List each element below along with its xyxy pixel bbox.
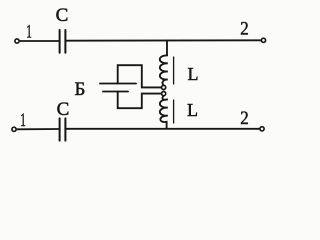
element lower electrode lead (103, 91, 128, 93)
terminal 1 (bottom left) (12, 127, 16, 131)
svg-text:1: 1 (26, 21, 32, 42)
inductor L2 coil (160, 96, 168, 129)
svg-text:L: L (188, 64, 199, 84)
svg-text:2: 2 (240, 19, 249, 40)
inductor L1 coil (160, 55, 168, 85)
svg-text:1: 1 (20, 110, 26, 131)
capacitor C (bottom) (60, 118, 66, 140)
capacitor C (top) (60, 30, 66, 53)
inductor L1 core line (173, 57, 175, 84)
terminal 2 (bottom right) (260, 127, 264, 131)
element upper electrode lead (100, 83, 136, 85)
svg-text:C: C (57, 99, 70, 120)
terminal 2 (top right) (261, 38, 265, 42)
node circle upper (162, 85, 166, 89)
wire top-right (67, 39, 261, 41)
svg-text:Б: Б (75, 79, 86, 100)
inductor L2 core line (173, 100, 175, 123)
svg-text:2: 2 (240, 108, 249, 129)
terminal 1 (top left) (15, 39, 19, 43)
element lower yoke (118, 92, 162, 109)
svg-text:L: L (187, 100, 198, 120)
wire bottom-right (67, 128, 260, 130)
element upper yoke (118, 65, 162, 87)
node circle lower (162, 92, 166, 96)
wire bottom-left (17, 128, 59, 130)
wire top-left (20, 40, 59, 42)
wire junction drop (top) (166, 41, 168, 55)
svg-text:C: C (56, 5, 69, 26)
